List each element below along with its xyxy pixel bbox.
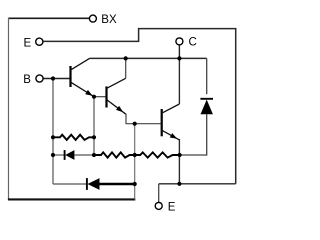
svg-text:E: E xyxy=(168,202,176,214)
svg-text:B: B xyxy=(23,74,31,86)
svg-text:C: C xyxy=(189,37,197,49)
svg-text:BX: BX xyxy=(101,14,117,26)
svg-text:E: E xyxy=(24,38,32,50)
